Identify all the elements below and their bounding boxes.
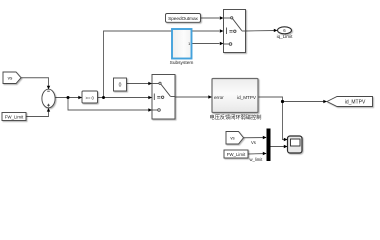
switch Switch1 [224,10,246,53]
svg-text:id_MTPV: id_MTPV [345,100,366,106]
svg-text:w_limit: w_limit [250,157,264,162]
wire: Mux output to Scope input2 [271,146,288,148]
arrowhead into Switch2 input2 [148,96,152,99]
svg-text:error: error [214,95,224,100]
subsystem MTPV (error / id_MTPV) [212,79,258,113]
svg-text:vs: vs [230,136,234,141]
junction J2 [102,96,105,99]
wire: Compare output to Switch2 input2 (through J2) [98,97,152,99]
arrowhead into Scope input2 [284,145,288,148]
wire: SpeedOutmax to Switch1 input1 [201,17,220,19]
outport id_MTPV (pentagon) [327,97,373,107]
arrowhead into Sum bottom [47,108,50,112]
arrowhead into Scope input1 [284,138,288,141]
block SpeedOutmax (constant) [166,14,201,23]
svg-text:vs: vs [8,76,13,81]
wire: vs2 to Mux input1 [244,137,267,139]
switch Switch2 [152,75,175,120]
arrowhead into Compare block [78,96,82,99]
svg-text:电压反馈闭环弱磁控制: 电压反馈闭环弱磁控制 [210,113,262,121]
outport oval iq_Limit [278,27,292,34]
svg-text:Subsystem: Subsystem [170,60,194,66]
sum block [42,89,55,108]
block FW_Limit (bottom) [224,150,248,158]
subsystem Subsystem (selected, blue) [170,29,194,66]
junction J1 [67,96,70,99]
inport vs (left) [3,72,21,84]
wire: FW_Limit2 to Mux input2 [248,153,266,156]
wire: constant 0 to Switch2 input1 [127,83,152,85]
wire: Switch2 output to MTPV subsystem [175,96,212,98]
svg-text:id_MTPV: id_MTPV [237,95,257,100]
wire: Sum output to Compare block with junction J1 [55,97,82,99]
arrowhead into Switch1 input2 [220,29,224,32]
arrowhead into iq_Limit oval [274,29,278,32]
wire: J3 down to Scope input1 [283,102,288,140]
arrowhead into MTPV block [208,95,212,98]
wire: MTPV block output right, down to J3, to id_MTPV outport [258,97,327,102]
mux Mux [267,129,271,162]
arrowhead into Mux input1 [263,136,267,139]
wire: Subsystem to Switch1 input3 [192,43,220,45]
arrowhead into Switch2 input1 [148,82,152,85]
svg-text:FW_Limit: FW_Limit [5,115,24,120]
wire: vs inport to Sum top [21,78,49,89]
svg-text:>= 0: >= 0 [86,95,95,100]
svg-text:FW_Limit: FW_Limit [227,152,246,157]
arrowhead into Switch1 input3 [220,42,224,45]
svg-text:Vs: Vs [251,140,256,145]
junction J3 [281,100,284,103]
arrowhead into Switch2 input3 [148,108,152,111]
block FW_Limit (left) [2,113,26,121]
inport vs (bottom) [226,132,244,145]
compare block >= 0 [82,91,98,103]
arrowhead into id_MTPV outport [323,100,327,103]
constant 0 [114,78,127,91]
svg-text:iq_Limit: iq_Limit [277,34,294,39]
scope Scope [288,136,303,153]
arrowhead into Sum top [47,86,50,90]
wire: J1 down and right to Switch2 input3 [68,98,152,111]
wire: FW_Limit to Sum bottom [26,108,49,116]
wire: J2 up to Switch1 control (x103.5 vertical, y31 horizontal, behind Subsystem) [104,31,220,98]
arrowhead into Switch1 input1 [220,16,224,19]
svg-text:SpeedOutmax: SpeedOutmax [168,16,198,22]
wire: Switch1 output to iq_Limit outport [246,30,275,33]
arrowhead into Mux input2 [263,152,267,155]
svg-text:0: 0 [119,82,122,88]
